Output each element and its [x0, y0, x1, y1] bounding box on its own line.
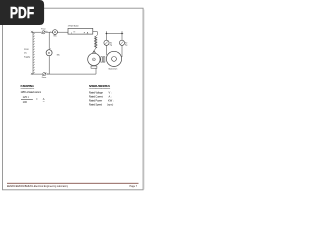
starter terminal link	[73, 31, 75, 33]
motor bottom brush terminal	[91, 66, 97, 68]
belt left	[106, 45, 108, 55]
svg-text:KW :: KW :	[108, 99, 114, 103]
svg-text:220V: 220V	[24, 49, 29, 51]
svg-text:A: A	[54, 30, 56, 34]
svg-text:V :: V :	[109, 90, 112, 94]
svg-text:Kg: Kg	[110, 45, 112, 47]
DC supply busbar	[33, 32, 35, 74]
spring balance S2	[119, 40, 124, 45]
motor M armature	[88, 53, 100, 65]
svg-text:Supply: Supply	[24, 56, 30, 58]
svg-text:Kg: Kg	[125, 45, 127, 47]
svg-text:Rated Current: Rated Current	[89, 94, 103, 98]
voltmeter V (MC)	[46, 50, 52, 56]
starter box (2 point starter)	[68, 28, 93, 34]
fuse F2 (negative line)	[42, 73, 46, 76]
wire to motor bottom terminal	[95, 68, 97, 74]
wire bottom rail left	[33, 73, 42, 75]
hanger rod right	[121, 34, 123, 41]
wire starter output to field	[93, 32, 98, 37]
motor top brush terminal	[92, 51, 96, 53]
belt right	[121, 45, 123, 57]
svg-text:FUSE RATING:: FUSE RATING:	[21, 84, 35, 88]
svg-text:100: 100	[23, 100, 28, 104]
svg-text:(rpm): (rpm)	[107, 103, 113, 107]
spring balance support bar	[106, 31, 124, 33]
ammeter A (MC)	[53, 30, 58, 35]
svg-text:A :: A :	[109, 94, 112, 98]
motor shaft	[99, 58, 102, 60]
wire fuse to ammeter	[46, 31, 53, 33]
wire voltmeter branch lower	[48, 56, 50, 74]
wire field to motor brush	[94, 48, 95, 50]
svg-text:Rated Speed: Rated Speed	[89, 103, 103, 107]
wire ammeter to starter	[57, 31, 68, 33]
brake drum	[106, 51, 121, 66]
supply positive terminal	[31, 31, 33, 33]
svg-text:MC: MC	[57, 54, 61, 56]
svg-text:125% of rated current: 125% of rated current	[21, 90, 42, 94]
series field winding	[95, 36, 97, 48]
supply negative terminal	[31, 73, 33, 75]
svg-text:PDF: PDF	[10, 5, 34, 22]
svg-text:Brake Drum: Brake Drum	[109, 69, 118, 71]
spring balance S1	[104, 40, 109, 45]
svg-text:Rated Voltage: Rated Voltage	[89, 90, 104, 94]
svg-text:V: V	[48, 51, 50, 55]
svg-text:2 Point Starter: 2 Point Starter	[68, 24, 79, 27]
hanger rod left	[106, 34, 108, 41]
svg-text:Rated Power: Rated Power	[89, 99, 102, 103]
fuse F1 (positive line)	[41, 31, 45, 34]
svg-text:EE8261/EE8361/BE8261-Electrica: EE8261/EE8361/BE8261-Electrical Engineer…	[7, 185, 69, 188]
wire bottom rail right	[46, 73, 96, 75]
wire voltmeter branch upper	[48, 32, 50, 50]
node bar-left junction	[106, 33, 107, 34]
svg-text:MC: MC	[54, 36, 58, 38]
wire top rail left	[32, 31, 41, 33]
node bar-right junction	[121, 33, 122, 34]
svg-text:A: A	[43, 97, 45, 101]
shaft coupling	[101, 57, 105, 62]
svg-text:Page 7: Page 7	[130, 185, 138, 188]
svg-text:NAME PLATE DETAILS:: NAME PLATE DETAILS:	[89, 84, 110, 88]
svg-text:125 ×: 125 ×	[23, 95, 30, 99]
